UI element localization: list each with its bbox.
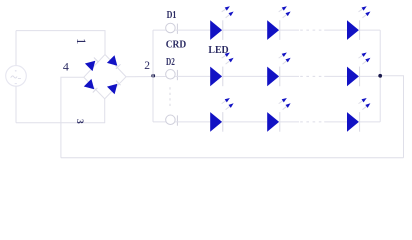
LED row 3 col2 emission arrows — [279, 98, 291, 110]
LED row 3 col1 (triangle) — [210, 112, 222, 132]
row 2 continuation dots — [300, 75, 321, 77]
svg-text:CRD: CRD — [166, 40, 187, 51]
bridge diode upper-right cathode bar — [116, 64, 121, 69]
wire: right bus (vertical) — [379, 30, 381, 122]
LED row 1 col3 cathode bar — [359, 20, 361, 40]
LED row 3 col3 cathode bar — [359, 112, 361, 132]
wire: bottom bus — [61, 157, 404, 159]
wire: row 3 from CRD to LED string — [175, 121, 210, 123]
CRD Dn bar — [176, 115, 178, 125]
LED row 2 col2 (triangle) — [267, 67, 279, 87]
LED row 1 col2 emission arrows — [279, 6, 291, 18]
wire: bridge terminal 4 down to bottom bus — [61, 77, 84, 158]
wire: row 2 from CRD to LED string — [175, 75, 210, 77]
LED row 2 col3 emission arrows — [359, 53, 371, 65]
LED row 2 col1 (triangle) — [210, 67, 222, 87]
bridge diode upper-left (triangle) — [85, 61, 95, 71]
row 1 continuation dots — [300, 29, 321, 31]
bridge diode lower-right (triangle) — [107, 84, 117, 94]
wire: row 3 segment to right bus — [359, 121, 380, 123]
LED row 1 col2 cathode bar — [279, 20, 281, 40]
wire: AC source bottom lead to bridge terminal 3 — [16, 99, 105, 123]
LED row 2 col2 emission arrows — [279, 53, 291, 65]
LED row 3 col2 cathode bar — [279, 112, 281, 132]
LED row 3 col1 cathode bar — [222, 112, 224, 132]
CRD D2 (circle symbol) — [166, 70, 176, 80]
CRD supply rail (vertical) — [152, 30, 154, 122]
CRD D1 bar — [176, 24, 178, 34]
row 3 continuation dots — [300, 121, 321, 123]
wire: row 1 segment after LED2 — [280, 29, 300, 31]
wire: right return up to output node — [380, 76, 403, 158]
wire: row 1 segment to right bus — [359, 29, 380, 31]
CRD column ellipsis (dashed) — [169, 87, 171, 107]
wire: row 1 from CRD to LED string — [175, 29, 210, 31]
svg-text:D2: D2 — [166, 57, 175, 68]
bridge diode upper-left cathode bar — [94, 58, 99, 63]
wire: row 2 segment before LED3 — [324, 75, 347, 77]
junction dot at node 2 — [151, 74, 155, 78]
LED row 2 col1 emission arrows — [222, 53, 234, 65]
LED row 3 col2 (triangle) — [267, 112, 279, 132]
bridge rectifier diamond outline — [84, 55, 126, 99]
wire: row 2 segment LED1-LED2 — [223, 75, 268, 77]
svg-text:1: 1 — [74, 38, 88, 44]
LED row 1 col3 (triangle) — [347, 20, 359, 40]
wire: row 3 segment after LED2 — [280, 121, 300, 123]
wire: bridge output terminal 2 to CRD rail — [126, 76, 166, 78]
LED row 1 col1 cathode bar — [222, 20, 224, 40]
CRD D2 bar — [176, 70, 178, 80]
LED row 1 col1 (triangle) — [210, 20, 222, 40]
LED row 3 col3 emission arrows — [359, 98, 371, 110]
AC power source — [6, 31, 27, 123]
LED row 2 col3 (triangle) — [347, 67, 359, 87]
LED row 1 col1 emission arrows — [222, 6, 234, 18]
LED row 3 col3 (triangle) — [347, 112, 359, 132]
svg-text:2: 2 — [144, 60, 150, 72]
wire: rail bottom corner to CRD Dn — [153, 121, 170, 123]
bridge diode lower-left (triangle) — [84, 79, 94, 89]
bridge diode lower-right cathode bar — [116, 81, 121, 86]
bridge diode lower-left cathode bar — [93, 88, 98, 93]
LED row 1 col3 emission arrows — [359, 6, 371, 18]
LED row 1 col2 (triangle) — [267, 20, 279, 40]
svg-text:3: 3 — [74, 119, 84, 124]
LED row 2 col3 cathode bar — [359, 67, 361, 87]
wire: row 1 segment LED1-LED2 — [223, 29, 268, 31]
LED row 3 col1 emission arrows — [222, 98, 234, 110]
wire: row 1 segment before LED3 — [324, 29, 347, 31]
wire: rail to CRD D1 — [153, 29, 170, 31]
wire: row 2 segment after LED2 — [280, 75, 300, 77]
svg-text:D1: D1 — [167, 10, 177, 21]
LED row 2 col2 cathode bar — [279, 67, 281, 87]
LED row 2 col1 cathode bar — [222, 67, 224, 87]
junction dot at right bus — [378, 74, 382, 78]
svg-text:4: 4 — [63, 60, 69, 74]
bridge diode upper-right (triangle) — [107, 55, 117, 65]
wire: row 2 segment to right bus — [359, 75, 380, 77]
wire: row 3 segment before LED3 — [324, 121, 347, 123]
wire: row 3 segment LED1-LED2 — [223, 121, 268, 123]
CRD D1 (circle symbol) — [166, 23, 176, 33]
wire: AC source top lead to bridge terminal 1 — [16, 31, 105, 55]
CRD Dn bottom (circle symbol) — [166, 115, 176, 125]
